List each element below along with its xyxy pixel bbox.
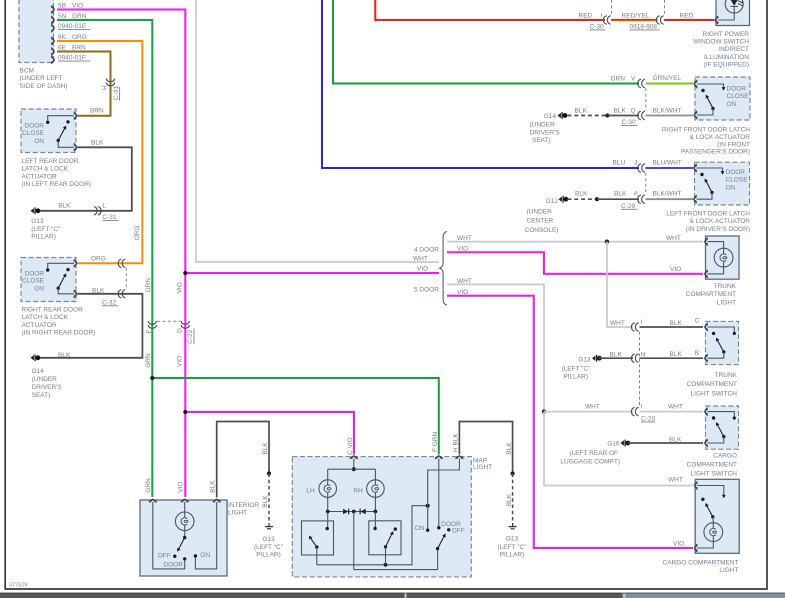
svg-text:ON: ON [727,101,737,108]
svg-text:PASSENGER'S DOOR): PASSENGER'S DOOR) [681,149,750,156]
svg-text:WHT: WHT [457,235,472,242]
svg-text:VIO: VIO [177,481,184,492]
map light H feed [428,459,460,529]
wire BLK from G16 to cargo switch [628,442,703,444]
window switch LED emission arrows [738,1,743,6]
LF actuator fixed contact arrow [721,171,725,175]
LR actuator contact 2 [66,120,69,123]
LF actuator pin BLK/WHT [694,195,697,203]
svg-text:DRIVER'S: DRIVER'S [32,384,63,391]
map light DOOR contact [437,526,440,529]
svg-text:(LEFT REAR OF: (LEFT REAR OF [569,450,618,457]
RH switch contact right [394,527,397,530]
wire BLK from map light up [459,422,512,474]
ground G14 under driver's seat [558,112,568,119]
RF actuator contact dot [701,89,704,92]
map light bottom bus [317,506,426,565]
RF actuator fixed contact arrow [722,87,726,91]
svg-text:ORG: ORG [72,34,87,41]
wire BLK/WHT to right front door actuator [646,115,694,117]
diode D1 (pointing right) [343,509,348,515]
svg-text:6K: 6K [58,34,67,41]
wire BLK dashed from G12 [568,198,598,200]
svg-text:C-22: C-22 [187,329,194,343]
LH switch pivot [315,545,318,548]
svg-text:GRN/YEL: GRN/YEL [653,75,682,82]
RR actuator contact 1 [46,268,49,271]
svg-text:BLK: BLK [610,351,623,358]
svg-text:5N: 5N [58,13,67,20]
junction WHT trunk switch feed [605,240,609,244]
svg-text:L: L [102,202,106,209]
svg-text:BLK: BLK [262,442,269,455]
wire VIO from BCM 5B [57,10,185,274]
wire ORG from BCM 6K [57,41,142,263]
svg-text:GRN: GRN [72,13,87,20]
svg-text:RIGHT FRONT DOOR LATCH: RIGHT FRONT DOOR LATCH [662,126,750,133]
svg-text:BLK/WHT: BLK/WHT [653,191,682,198]
svg-text:CONSOLE): CONSOLE) [525,227,559,234]
LH switch contact [326,527,329,530]
svg-text:LIGHT: LIGHT [473,464,492,471]
svg-text:6E: 6E [58,45,67,52]
svg-text:GRN: GRN [145,278,152,293]
svg-text:CLOSE: CLOSE [727,93,750,100]
underline C-29 [621,208,637,210]
svg-text:I: I [641,403,643,410]
svg-text:C-32: C-32 [102,299,116,306]
junction BLK interior G13 splice [267,471,271,475]
svg-text:F GRN: F GRN [432,431,439,452]
svg-text:LIGHT SWITCH: LIGHT SWITCH [691,390,738,397]
map light diode row LH junction [326,510,330,514]
svg-text:(LEFT "C": (LEFT "C" [254,544,284,551]
svg-text:F: F [146,330,153,334]
cargo compartment light switch box [706,406,739,449]
svg-text:ON: ON [34,138,44,145]
trunk compartment light box [706,236,740,279]
svg-text:BLK/WHT: BLK/WHT [653,108,682,115]
svg-text:LIGHT SWITCH: LIGHT SWITCH [691,471,738,478]
LF actuator internal wire bottom [697,193,713,200]
map light diode row center junction [352,510,356,514]
left rear door latch and lock actuator box [21,109,76,153]
underline C-22 rotated [193,329,195,345]
cargo light fixed contact arrow [722,495,726,499]
RR actuator internal wire bottom [58,288,74,294]
cargo compartment light box [695,479,739,553]
svg-text:CLOSE: CLOSE [22,278,45,285]
RR actuator blade arrow [63,272,68,277]
wire WHT C-20 to cargo switch [640,411,704,413]
svg-text:ORG: ORG [134,225,141,240]
svg-text:BLK: BLK [58,352,71,359]
svg-text:C-30: C-30 [590,23,604,30]
junction VIO at map light feed [183,410,187,414]
RF actuator blade arrow [704,94,709,99]
svg-text:LIGHT: LIGHT [719,567,738,574]
RH switch contact left [373,527,376,530]
svg-text:RIGHT REAR DOOR: RIGHT REAR DOOR [22,306,84,313]
map light LH lamp into switch [327,512,329,528]
trunk switch blade [717,339,724,352]
svg-text:(UNDER: (UNDER [32,376,58,383]
trunk switch blade arrow [714,337,719,342]
map light LH lamp to diode row [327,497,329,511]
svg-text:LIGHT: LIGHT [717,299,736,306]
svg-text:4 DOOR: 4 DOOR [414,246,439,253]
trunk light internal top [708,242,724,249]
junction BLK G14 splice [605,113,609,117]
svg-text:COMPARTMENT: COMPARTMENT [687,381,737,388]
svg-text:LIGHT: LIGHT [228,509,247,516]
svg-text:COMPARTMENT: COMPARTMENT [687,461,737,468]
BCM pin socket y=51.5 [51,48,54,56]
connector C-31 pin H break [106,79,115,86]
ground G13 left C pillar (interior light) [265,523,273,529]
map light LH bulb [319,480,337,498]
interior light internal left [153,502,185,569]
map light ON contact [426,529,429,532]
svg-text:(IN DRIVER'S DOOR): (IN DRIVER'S DOOR) [686,226,750,233]
RH switch pivot [384,545,387,548]
svg-text:G13: G13 [578,356,591,363]
svg-text:BLK: BLK [58,203,71,210]
junction WHT cargo feed [542,410,546,414]
svg-text:BLK: BLK [506,442,513,455]
map light H line junction [426,504,430,508]
ground G14 under driver's seat (left) [31,354,41,361]
wire WHT 4-door to trunk light [447,241,703,243]
svg-text:VIO: VIO [457,289,468,296]
svg-text:BLU: BLU [613,160,626,167]
svg-text:SEAT): SEAT) [32,392,51,399]
connector C-30 dashed stub up [611,0,613,15]
LF actuator blade arrow [703,178,708,183]
interior light DOOR contact [183,557,186,560]
svg-text:ON: ON [415,525,425,532]
cargo switch pin BLK [705,439,708,447]
svg-text:Q: Q [631,108,636,115]
left front door latch and lock actuator box [695,162,750,205]
svg-text:LEFT FRONT DOOR LATCH: LEFT FRONT DOOR LATCH [666,211,750,218]
svg-text:WHT: WHT [457,278,472,285]
RF actuator pin GRN/YEL [695,80,698,88]
cargo light pin VIO [695,544,698,552]
underline 0940-01F [58,60,90,62]
interior light bulb [175,512,194,531]
wire BRN from BCM 6E [57,52,111,116]
cargo light blade arrow [704,502,709,507]
svg-text:N: N [641,352,646,359]
BCM pin socket y=41 [51,37,54,45]
svg-text:VIO: VIO [670,266,681,273]
connector C-32 dashed link [125,268,127,289]
junction VIO at brace feed [183,271,187,275]
wire WHT 5-door down [447,284,544,411]
svg-text:C VIO: C VIO [347,437,354,455]
RF actuator pivot [711,107,714,110]
connector C-30 pin V break [638,79,645,88]
trunk light internal bottom [708,267,724,274]
svg-text:LUGGAGE COMPT): LUGGAGE COMPT) [560,459,620,466]
svg-text:(IN LEFT REAR DOOR): (IN LEFT REAR DOOR) [22,181,92,188]
map light diode row RH junction [374,510,378,514]
map light RH lamp into switch [374,512,376,528]
LH switch blade arrow [307,535,312,540]
svg-text:A: A [634,191,639,198]
wire BLK/WHT to left front door actuator [646,198,694,200]
RR actuator pin ORG [74,259,77,267]
LR actuator pin BRN [74,112,77,120]
svg-text:RIGHT POWER: RIGHT POWER [703,31,750,38]
wire BLK from G13 to connector N [599,357,634,359]
wire BLK dashed from G14 [568,115,608,117]
svg-text:DOOR: DOOR [727,86,747,93]
connector C-32 BLK break [118,290,125,299]
wire WHT long vertical [196,0,439,262]
wire WHT down to trunk switch [607,242,633,327]
window switch pin RED [716,16,719,24]
svg-text:377629: 377629 [9,583,28,589]
right power window switch indirect illumination box [716,0,750,26]
wire BLU top vertical [322,0,639,168]
window switch LED circle [725,0,743,13]
cargo light internal bottom [697,542,713,549]
svg-text:OFF: OFF [158,553,171,560]
svg-text:BLK: BLK [262,495,269,508]
map light LH switch box [302,521,334,555]
LR actuator switch blade [58,127,65,140]
cargo light internal mid [712,517,715,523]
svg-text:ACTUATOR: ACTUATOR [22,173,57,180]
trunk connector dashed link [639,332,641,407]
window switch LED diode [718,0,738,20]
svg-text:GRN: GRN [611,76,626,83]
svg-text:C-31: C-31 [102,214,116,221]
svg-text:TRUNK: TRUNK [714,283,737,290]
junction BLK map G13 splice [510,471,514,475]
svg-text:I: I [641,319,643,326]
BCM pin socket y=9.5 [51,6,54,14]
svg-text:I: I [601,12,603,19]
svg-text:V: V [631,76,636,83]
svg-text:RED/YEL: RED/YEL [622,12,650,19]
map light RH bulb [367,480,385,498]
RF actuator pin BLK/WHT [695,111,698,119]
wire BLK trunk switch B [640,357,704,359]
wire VIO horizontal to map light [185,412,354,455]
svg-text:VIO: VIO [176,356,183,367]
map light main switch blade [438,535,445,548]
svg-text:BLK: BLK [575,191,588,198]
wire VIO horizontal to 4/5-door brace [185,272,439,274]
map light LH drop [327,469,329,480]
trunk switch pin B [705,354,708,362]
svg-text:INDIRECT: INDIRECT [718,46,749,53]
svg-text:0918-908: 0918-908 [630,23,658,30]
map light junction C [352,467,356,471]
svg-text:B: B [695,350,699,357]
cargo switch internal top [708,412,735,417]
right rear door latch and lock actuator box [21,258,76,302]
svg-text:(IF EQUIPPED): (IF EQUIPPED) [703,61,749,68]
svg-text:C-31: C-31 [113,86,120,100]
connector C-20 pin I break [631,407,638,416]
RR actuator switch blade [58,275,65,288]
svg-text:D: D [176,328,183,333]
interior light ON contact [194,554,197,557]
map light C feed [353,459,355,468]
toolbar separator 2 [623,593,627,598]
interior light blade arrow [176,548,181,553]
svg-text:(LEFT "C": (LEFT "C" [497,544,527,551]
svg-text:5 DOOR: 5 DOOR [414,287,439,294]
svg-text:SIDE OF DASH): SIDE OF DASH) [20,83,68,90]
svg-text:BLK: BLK [506,493,513,506]
underline 0918-908 [630,29,660,31]
svg-text:(IN RIGHT REAR DOOR): (IN RIGHT REAR DOOR) [22,330,96,337]
trunk light pin WHT [705,238,708,246]
svg-text:WHT: WHT [610,320,625,327]
map light RH drop [374,469,376,480]
svg-text:ON: ON [200,552,210,559]
map light pin H [455,456,463,459]
interior light internal lamp feed [184,502,186,512]
wire VIO trunk branch run [184,273,186,412]
svg-text:DOOR: DOOR [25,123,45,130]
map light RH lamp to diode row [374,497,376,511]
underline C-20 [641,421,655,423]
interior light pin GRN [149,500,157,503]
connector C-32 ORG break [118,259,125,268]
svg-text:BLU/WHT: BLU/WHT [653,160,682,167]
map light pin F [435,456,443,459]
svg-text:VIO: VIO [176,282,183,293]
svg-text:DOOR: DOOR [726,169,746,176]
wire VIO 5-door to cargo light [447,296,693,548]
connector C-22 pin F break [148,321,157,328]
map light main pivot [436,547,439,550]
svg-text:G13: G13 [262,536,275,543]
RH switch pivot drop [385,547,387,565]
svg-text:G14: G14 [32,368,45,375]
LR actuator pivot [57,139,60,142]
svg-text:ILLUMINATION: ILLUMINATION [704,54,749,61]
map light box [292,457,471,577]
RR actuator pivot [57,287,60,290]
connector C-22 dashed link [157,320,181,322]
map light center drop [354,512,438,570]
RH switch blade [386,533,393,547]
svg-text:G13: G13 [31,218,44,225]
svg-text:WINDOW SWITCH: WINDOW SWITCH [693,39,749,46]
svg-text:G13: G13 [506,535,519,542]
connector C-31 pin L break [94,207,101,216]
svg-text:WHT: WHT [668,476,683,483]
svg-text:& LOCK ACTUATOR: & LOCK ACTUATOR [690,218,751,225]
wire RED/YEL between connectors [611,19,658,21]
wire WHT to C-20 [544,411,633,413]
svg-text:0940-01E: 0940-01E [58,23,87,30]
svg-text:ACTUATOR: ACTUATOR [22,322,57,329]
svg-text:RED: RED [579,12,593,19]
svg-text:5B: 5B [58,2,66,9]
wire BLK from right rear actuator [40,294,142,358]
ground G16 left rear of luggage compt [621,440,631,447]
svg-text:WHT: WHT [666,235,681,242]
map light bottom bus junction [384,563,388,567]
LF actuator internal wire top [697,168,723,173]
wire BLK dashed to G13 ground [268,474,270,524]
BCM pin socket y=28.2 [51,24,54,32]
LR actuator blade arrow [63,125,68,130]
connector 0918-908 dashed stub up [664,0,666,15]
wire BLU/WHT to left front door actuator [646,167,694,169]
svg-text:WHT: WHT [585,403,600,410]
BCM pin socket y=59.8 [51,56,54,64]
connector 0918-908 break [656,16,663,25]
svg-text:BCM: BCM [20,67,34,74]
BCM module box [19,0,54,63]
connector C-29 pin J break [638,164,645,173]
connector C-30 dashed link V-Q [645,88,647,111]
svg-text:PILLAR): PILLAR) [500,552,525,559]
LF actuator contact dot [700,173,703,176]
LF actuator switch blade [706,180,712,192]
connector C-30 pin Q break [638,111,645,120]
LR actuator internal wire top [48,116,74,121]
svg-text:INTERIOR: INTERIOR [228,502,259,509]
trunk switch pin C [705,323,708,331]
svg-text:BLK: BLK [614,191,627,198]
RF actuator internal wire bottom [697,109,713,116]
bottom toolbar bar [0,593,785,598]
underline C-32 [102,305,118,307]
cargo light pin WHT [695,482,698,490]
svg-text:OFF: OFF [452,528,465,535]
svg-text:DOOR: DOOR [163,562,183,569]
svg-text:C-29: C-29 [621,203,635,210]
cargo light bulb [704,523,723,542]
interior light internal right [195,502,216,569]
RR actuator pin BLK [74,290,77,298]
svg-text:J: J [634,160,637,167]
cargo light switch blade [706,505,713,517]
LF actuator pivot [710,191,713,194]
svg-text:VIO: VIO [417,266,428,273]
trunk switch pivot [722,350,725,353]
interior light pin BLK [213,500,221,503]
svg-text:SEAT): SEAT) [532,137,551,144]
svg-text:(UNDER: (UNDER [527,208,553,215]
wire BLK from splice to C-30 Q [608,115,640,117]
LH switch blade [310,537,317,547]
svg-text:GRN: GRN [145,478,152,493]
interior light pin VIO [181,500,189,503]
svg-text:BLK: BLK [614,108,627,115]
svg-text:C-30: C-30 [622,119,636,126]
RF actuator switch blade [707,96,713,108]
svg-text:RED: RED [680,12,694,19]
wire GRN to interior light [151,378,153,497]
svg-text:DOOR: DOOR [25,271,45,278]
wire BLK from interior light up [217,422,269,498]
svg-text:ON: ON [34,286,44,293]
trunk switch internal bottom [708,352,724,358]
svg-text:ON: ON [726,185,736,192]
svg-text:CLOSE: CLOSE [726,177,749,184]
